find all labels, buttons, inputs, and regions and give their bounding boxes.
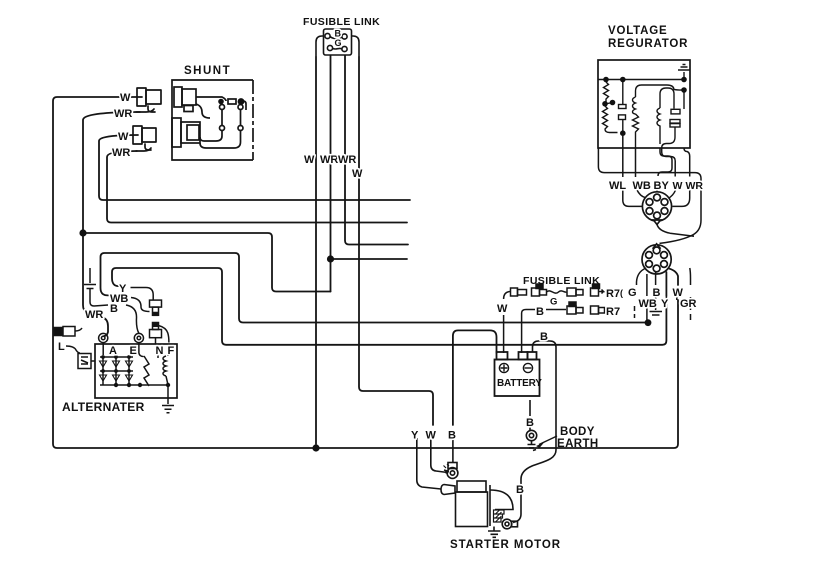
svg-text:B: B [654,180,662,192]
svg-text:G: G [628,287,637,299]
svg-text:W: W [673,180,683,192]
svg-text:WR: WR [112,147,130,159]
svg-text:VOLTAGE: VOLTAGE [608,25,667,37]
svg-text:WR: WR [85,309,103,321]
svg-text:W: W [120,92,131,104]
svg-text:REGURATOR: REGURATOR [608,38,688,50]
svg-text:B: B [540,331,548,343]
svg-text:WR: WR [338,154,356,166]
svg-text:SHUNT: SHUNT [184,65,231,77]
svg-text:Y: Y [411,430,419,442]
svg-text:R7: R7 [606,306,620,318]
svg-text:WR: WR [114,108,132,120]
svg-text:BATTERY: BATTERY [497,378,542,389]
svg-text:B: B [516,484,524,496]
svg-text:B: B [536,306,544,318]
svg-text:G: G [550,297,557,308]
svg-text:G: G [335,38,342,48]
svg-text:WB: WB [639,298,657,310]
svg-text:ALTERNATER: ALTERNATER [62,400,145,414]
svg-text:A: A [109,345,117,357]
svg-text:FUSIBLE LINK: FUSIBLE LINK [303,16,380,28]
svg-text:FUSIBLE LINK: FUSIBLE LINK [523,275,600,287]
svg-text:WB: WB [633,180,651,192]
svg-text:W: W [118,131,129,143]
svg-text:W: W [304,154,315,166]
svg-text:W: W [426,430,437,442]
svg-text:E: E [130,345,137,357]
svg-text:R7: R7 [606,288,620,300]
svg-text:WR: WR [320,154,338,166]
svg-text:B: B [448,430,456,442]
svg-text:F: F [168,345,175,357]
svg-text:STARTER MOTOR: STARTER MOTOR [450,539,561,551]
svg-text:BODY: BODY [560,426,595,438]
svg-text:(: ( [620,288,623,298]
svg-text:EARTH: EARTH [557,438,599,450]
svg-text:Y: Y [662,180,670,192]
svg-text:B: B [110,303,118,315]
svg-text:WL: WL [609,180,626,192]
svg-text:W: W [352,168,363,180]
svg-text:GR: GR [680,298,697,310]
svg-text:W: W [497,303,508,315]
svg-text:L: L [58,341,65,353]
svg-text:B: B [526,417,534,429]
svg-text:Y: Y [661,298,669,310]
svg-text:N: N [156,345,164,357]
svg-text:WR: WR [686,180,704,192]
